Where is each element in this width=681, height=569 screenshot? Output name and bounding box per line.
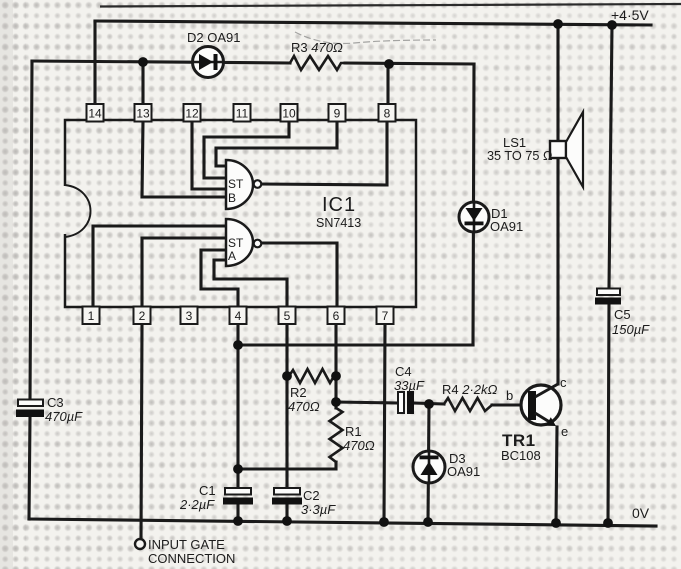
svg-text:c: c — [560, 375, 567, 390]
node C2/0V — [282, 516, 292, 526]
wire pin2 to input terminal — [141, 325, 142, 539]
wire pin7 drop — [384, 325, 385, 522]
svg-text:LS1: LS1 — [503, 135, 526, 150]
pin 13 — [135, 104, 152, 122]
pin 6 — [328, 307, 345, 325]
svg-text:C3: C3 — [47, 395, 64, 410]
wire R1 bottom to pin4 wire — [238, 462, 336, 469]
svg-text:14: 14 — [88, 107, 102, 121]
wire +4.5V top rail — [95, 21, 651, 25]
pin boxes top row — [87, 104, 396, 122]
svg-text:150µF: 150µF — [612, 322, 650, 337]
node pin4/D1 horizontal — [233, 340, 243, 350]
svg-text:1: 1 — [88, 309, 95, 323]
wire TR1 emitter to 0V — [556, 427, 557, 523]
scan border top line — [100, 4, 681, 7]
svg-text:+4·5V: +4·5V — [611, 7, 649, 23]
svg-text:4: 4 — [235, 309, 242, 323]
wire 0V bottom rail — [29, 519, 656, 526]
gate IC1b schmitt NAND A — [226, 219, 261, 266]
wire gateA in1 from pin1 — [93, 226, 227, 307]
loudspeaker LS1 — [550, 112, 583, 187]
pin 10 — [281, 104, 298, 122]
svg-text:3·3µF: 3·3µF — [301, 502, 336, 517]
wire node horizontal D1 to pin4 — [238, 343, 473, 346]
scan scratch artifact near R3 label — [295, 32, 436, 44]
svg-text:13: 13 — [136, 107, 150, 121]
svg-text:12: 12 — [185, 107, 199, 121]
node C4 branch — [331, 397, 341, 407]
wire speaker drop — [556, 24, 559, 141]
wire C4 branch — [336, 402, 529, 405]
wire pin6 drop to R1 — [334, 325, 337, 408]
wire left vertical to C3 and 0V — [29, 61, 32, 519]
pin 14 — [87, 104, 104, 122]
wire D3 drop — [428, 404, 429, 522]
svg-text:BC108: BC108 — [501, 448, 541, 463]
node C1/0V — [233, 516, 243, 526]
svg-text:A: A — [228, 249, 236, 263]
pin 8 — [379, 104, 396, 122]
pin 11 — [234, 104, 251, 122]
pin 2 — [134, 307, 151, 325]
node R2 right — [331, 371, 341, 381]
pin 12 — [184, 104, 201, 122]
svg-text:35 TO 75 Ω: 35 TO 75 Ω — [487, 149, 552, 163]
svg-text:470Ω: 470Ω — [343, 438, 375, 453]
svg-text:R3 470Ω: R3 470Ω — [291, 40, 343, 55]
wire gateA in4 from pin5 — [214, 260, 287, 307]
wire speaker to TR1 collector — [556, 158, 559, 384]
svg-text:8: 8 — [384, 107, 391, 121]
svg-text:C5: C5 — [614, 307, 631, 322]
svg-text:470µF: 470µF — [45, 409, 83, 424]
pin 3 — [181, 307, 198, 325]
wire pin8 riser — [386, 64, 389, 105]
darker left edge band — [0, 0, 26, 569]
svg-text:IC1: IC1 — [322, 194, 356, 216]
wire right vertical through D1 — [473, 64, 474, 345]
pin boxes bottom row — [83, 307, 394, 325]
svg-text:7: 7 — [382, 309, 389, 323]
svg-text:2: 2 — [139, 309, 146, 323]
wire gateB output to pin8 — [261, 121, 387, 185]
node C5/0V — [603, 518, 613, 528]
node pin8/R3 — [384, 59, 394, 69]
wire gateA output to pin6 — [261, 243, 337, 307]
svg-text:3: 3 — [186, 309, 193, 323]
svg-text:ST: ST — [228, 236, 244, 250]
wire gateB in4 from pin13 — [142, 121, 227, 197]
svg-text:10: 10 — [282, 107, 296, 121]
svg-text:OA91: OA91 — [447, 464, 480, 479]
node R2 left — [282, 371, 292, 381]
svg-text:b: b — [506, 388, 513, 403]
svg-text:C1: C1 — [199, 483, 216, 498]
node C5/+4.5V — [607, 20, 617, 30]
pin 5 — [279, 307, 296, 325]
pin 1 — [83, 307, 100, 325]
wire pin5 drop through C2 — [285, 325, 288, 521]
resistor R3 zigzag — [290, 56, 345, 70]
svg-text:C2: C2 — [303, 488, 320, 503]
capacitor C5 — [595, 289, 621, 305]
capacitor C3 — [16, 400, 44, 418]
diode D3 — [413, 451, 445, 483]
wire pin13 drop — [141, 62, 144, 105]
svg-text:ST: ST — [228, 177, 244, 191]
input gate terminal — [135, 539, 145, 549]
svg-text:9: 9 — [334, 107, 341, 121]
svg-text:470Ω: 470Ω — [288, 399, 320, 414]
gate IC1a schmitt NAND B — [226, 160, 261, 209]
pin 4 — [230, 307, 247, 325]
wire gateB in1 from pin9 — [216, 121, 337, 166]
wire D2/R3 rail — [32, 61, 474, 64]
node D3 branch — [424, 399, 434, 409]
svg-text:e: e — [561, 424, 568, 439]
svg-text:R2: R2 — [290, 385, 307, 400]
svg-text:CONNECTION: CONNECTION — [148, 551, 235, 566]
pin 9 — [329, 104, 346, 122]
diode D2 — [193, 47, 224, 78]
wire pin4 drop through C1 — [236, 325, 239, 521]
capacitor C1 — [223, 488, 253, 505]
capacitor C2 — [272, 488, 302, 505]
svg-text:5: 5 — [284, 309, 291, 323]
wire gateB in3 from pin12 — [192, 121, 227, 189]
svg-text:6: 6 — [333, 309, 340, 323]
capacitor C4 — [398, 391, 414, 414]
IC1 outline SN7413 — [65, 120, 416, 307]
resistor R1 zigzag — [330, 408, 343, 462]
svg-text:OA91: OA91 — [490, 219, 523, 234]
svg-text:11: 11 — [236, 107, 249, 121]
svg-text:SN7413: SN7413 — [316, 216, 361, 230]
node pin7/0V — [379, 517, 389, 527]
wire gateB in2 from pin10 — [204, 121, 289, 178]
node D3/0V — [423, 517, 433, 527]
resistor R2 zigzag — [289, 369, 334, 383]
pin 7 — [377, 307, 394, 325]
wire gateA in2 from pin2 — [142, 238, 227, 307]
node pin13/D2 rail — [138, 57, 148, 67]
svg-text:0V: 0V — [632, 505, 650, 521]
node TR1 emitter/0V — [551, 518, 561, 528]
node speaker/+4.5V — [553, 19, 563, 29]
svg-text:C4: C4 — [395, 364, 412, 379]
wire C5 branch — [608, 25, 612, 523]
svg-text:B: B — [228, 191, 236, 205]
svg-text:R1: R1 — [345, 424, 362, 439]
wire pin14 drop from top rail — [93, 21, 96, 105]
svg-text:R4 2·2kΩ: R4 2·2kΩ — [442, 382, 498, 397]
diode D1 — [459, 202, 489, 232]
svg-text:2·2µF: 2·2µF — [179, 497, 215, 512]
svg-text:D2 OA91: D2 OA91 — [187, 30, 240, 45]
resistor R4 zigzag — [444, 398, 492, 411]
svg-text:INPUT GATE: INPUT GATE — [148, 537, 225, 552]
svg-text:33µF: 33µF — [394, 378, 425, 393]
transistor TR1 — [521, 384, 561, 426]
wire gateA in3 from pin4 — [201, 250, 238, 307]
node R1 bottom — [233, 464, 243, 474]
